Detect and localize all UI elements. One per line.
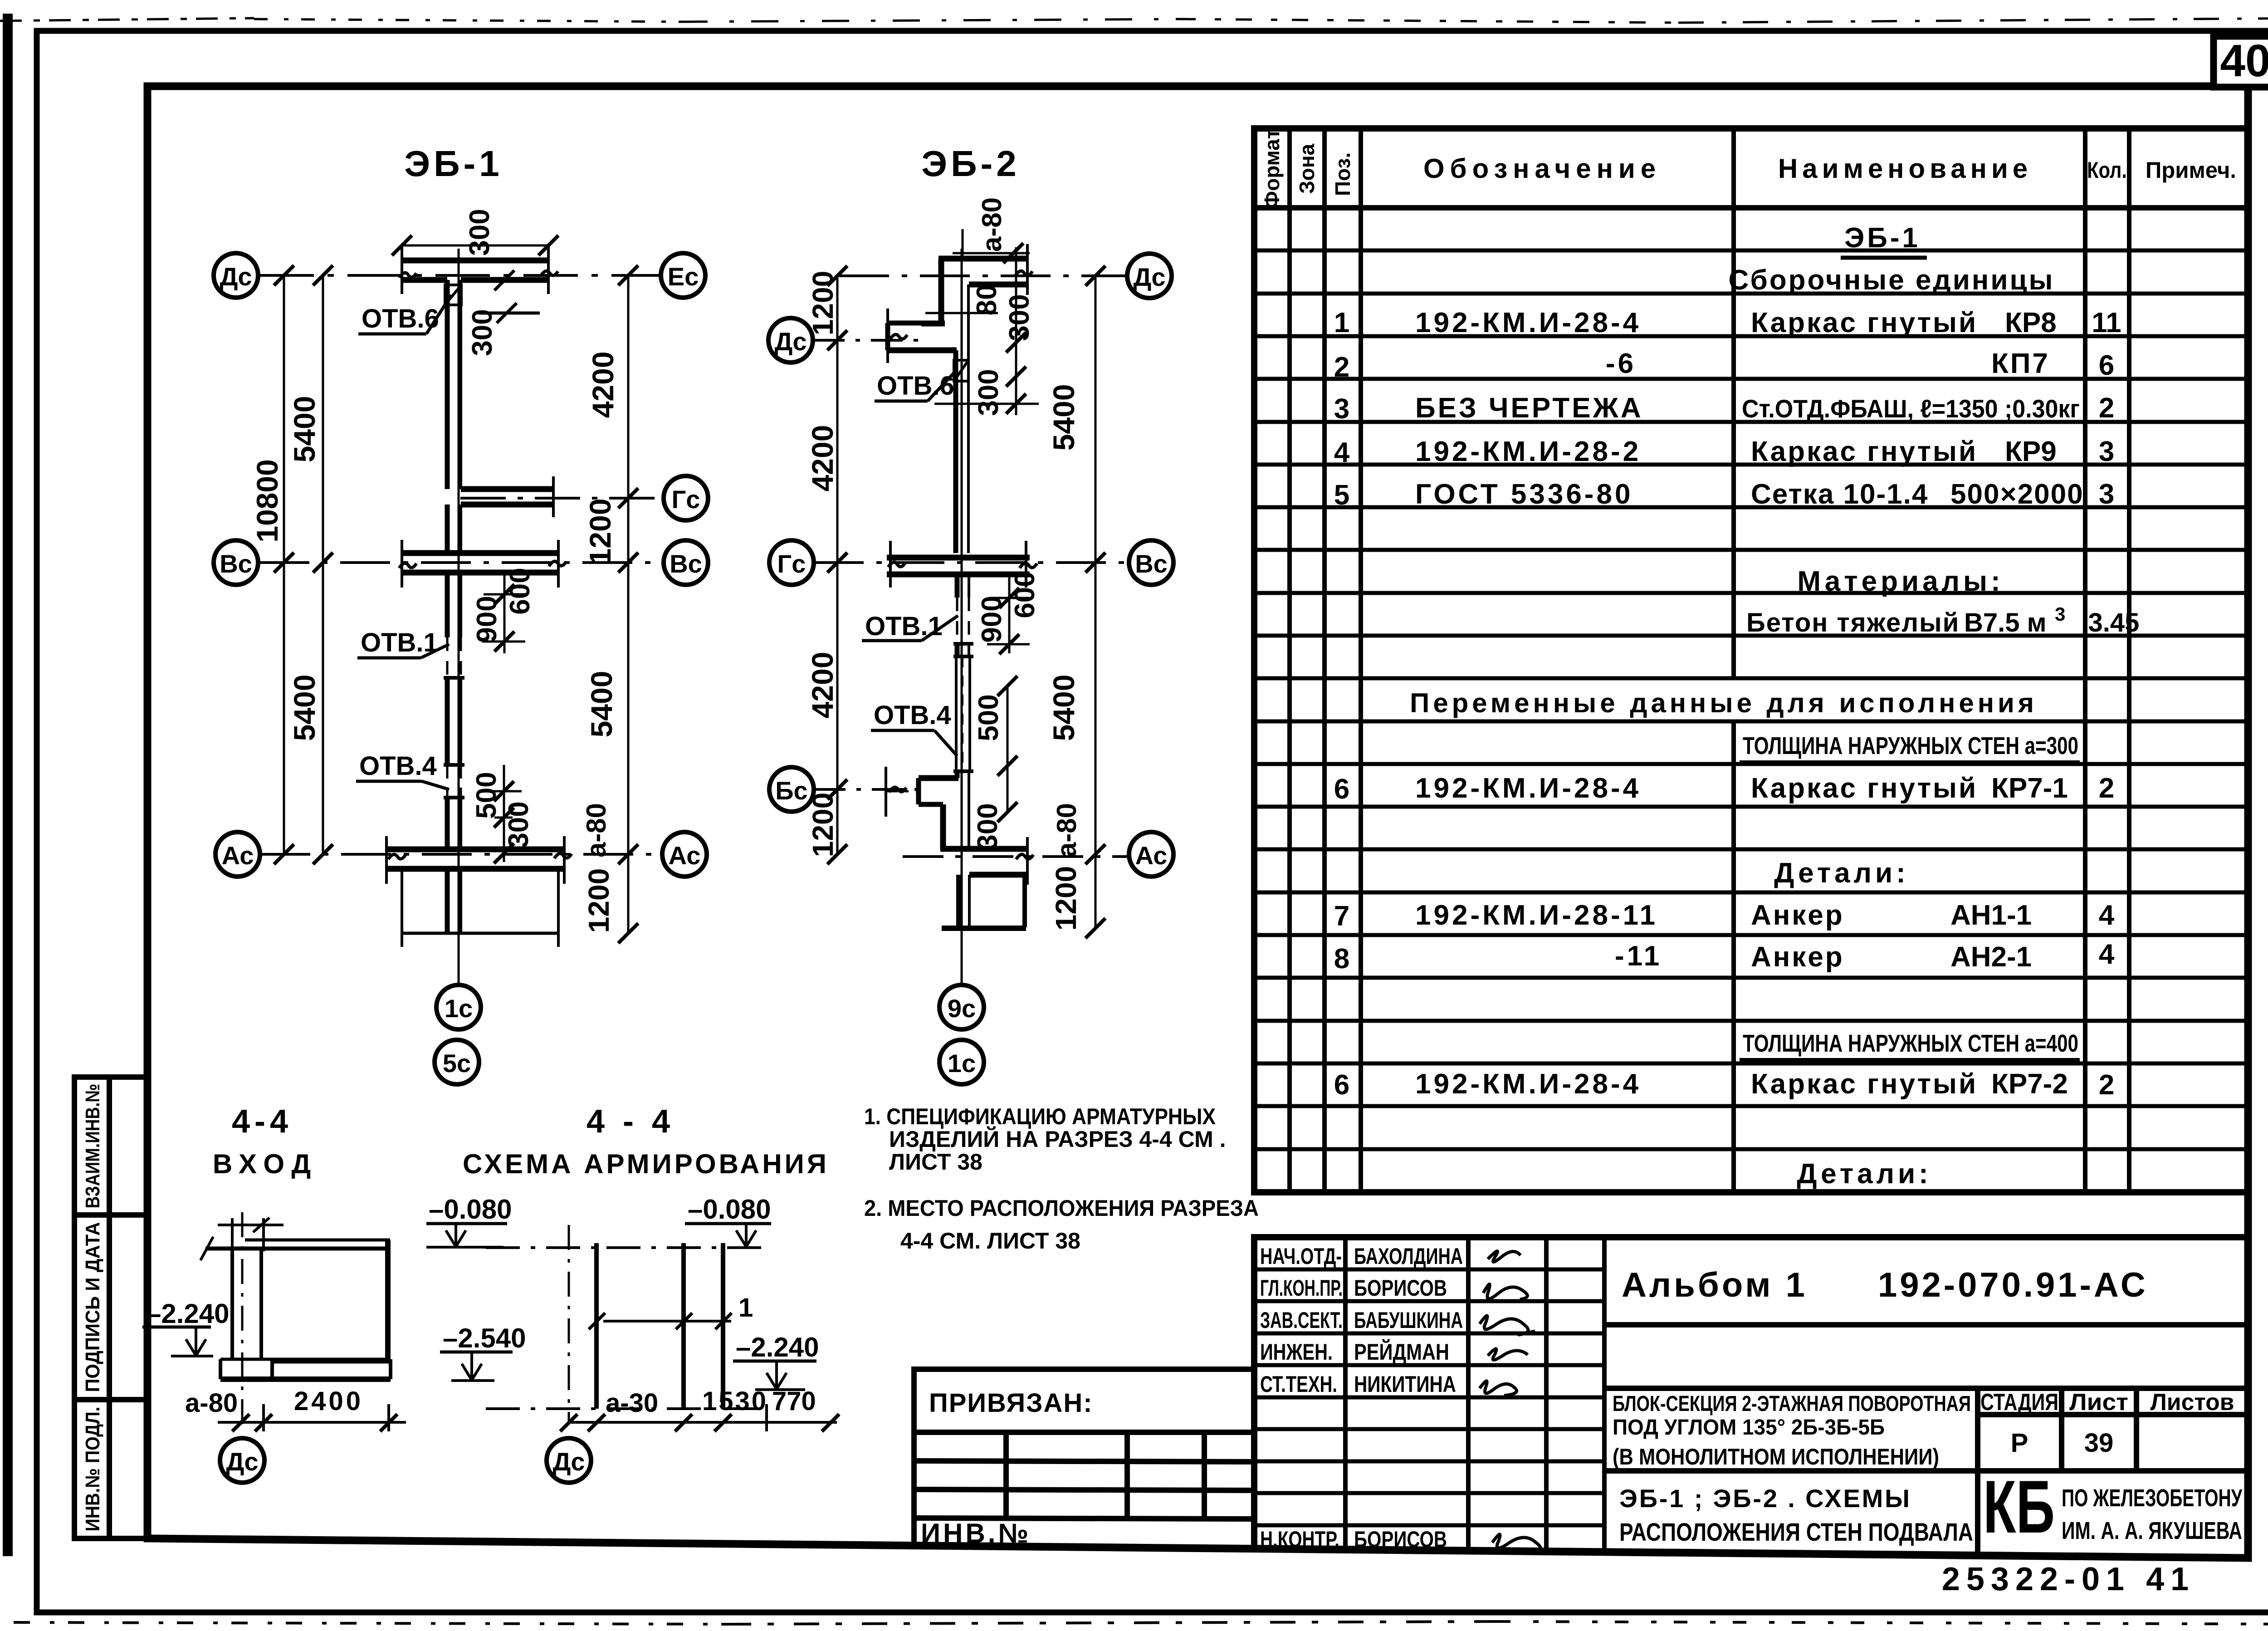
svg-text:РЕЙДМАН: РЕЙДМАН xyxy=(1354,1339,1449,1365)
svg-text:ОТВ.4: ОТВ.4 xyxy=(359,751,437,781)
svg-text:ИНВ.№: ИНВ.№ xyxy=(921,1518,1031,1548)
svg-text:5с: 5с xyxy=(443,1049,471,1078)
svg-text:ОТВ.1: ОТВ.1 xyxy=(865,612,943,641)
svg-text:5400: 5400 xyxy=(1047,675,1080,741)
svg-text:Анкер: Анкер xyxy=(1751,900,1844,931)
svg-text:1200: 1200 xyxy=(807,271,839,335)
axis line Вс xyxy=(259,561,663,564)
svg-text:а-80: а-80 xyxy=(977,197,1007,252)
svg-text:–0.080: –0.080 xyxy=(688,1194,771,1224)
svg-text:ЭБ-1: ЭБ-1 xyxy=(404,143,503,184)
signature rows xyxy=(1254,1269,1604,1525)
axis circle Гс xyxy=(664,476,708,520)
top slab xyxy=(200,1237,390,1260)
axis line Ас xyxy=(260,853,661,856)
svg-text:Каркас гнутый: Каркас гнутый xyxy=(1751,436,1978,467)
КБ logo xyxy=(1983,1465,2243,1548)
top mini dim xyxy=(218,1218,283,1251)
svg-text:КР7-1: КР7-1 xyxy=(1991,773,2068,804)
svg-text:4-4: 4-4 xyxy=(232,1103,293,1140)
svg-text:192-КМ.И-28-2: 192-КМ.И-28-2 xyxy=(1415,436,1641,467)
rebar callout 1 xyxy=(589,1293,753,1329)
wall vertical Дс-Гс xyxy=(447,280,461,489)
svg-text:80: 80 xyxy=(971,284,1002,316)
left margin stamp boxes xyxy=(74,1077,147,1538)
svg-text:Ас: Ас xyxy=(222,841,254,870)
отв.6 opening hatch ЭБ-2 xyxy=(954,360,968,381)
svg-text:192-КМ.И-28-4: 192-КМ.И-28-4 xyxy=(1415,773,1641,804)
ПРИВЯЗАН block xyxy=(914,1369,1254,1548)
sheet number box 40 xyxy=(2214,35,2268,87)
svg-text:ПРИВЯЗАН:: ПРИВЯЗАН: xyxy=(929,1388,1093,1418)
table verticals xyxy=(1290,128,2129,1192)
level mark -0.080 xyxy=(426,1194,512,1247)
svg-text:8: 8 xyxy=(1334,943,1349,975)
svg-text:Дс: Дс xyxy=(220,262,252,291)
svg-text:ОТВ.1: ОТВ.1 xyxy=(361,628,438,657)
axis circle 9с xyxy=(939,985,984,1029)
svg-text:Ес: Ес xyxy=(668,262,699,291)
wall below Ас ЭБ-2 xyxy=(942,875,1026,928)
svg-text:192-070.91-АС: 192-070.91-АС xyxy=(1878,1266,2148,1304)
svg-text:ЭБ-2: ЭБ-2 xyxy=(921,143,1020,184)
dim 600/900 below Вс xyxy=(482,574,525,653)
svg-text:10800: 10800 xyxy=(250,459,284,543)
svg-text:3: 3 xyxy=(2099,479,2114,510)
svg-text:НИКИТИНА: НИКИТИНА xyxy=(1354,1371,1456,1397)
svg-text:3: 3 xyxy=(1334,393,1349,425)
svg-text:300: 300 xyxy=(464,209,495,255)
svg-text:300: 300 xyxy=(973,369,1004,416)
svg-text:1530: 1530 xyxy=(702,1386,768,1416)
svg-text:Поз.: Поз. xyxy=(1331,152,1354,196)
svg-text:РАСПОЛОЖЕНИЯ СТЕН ПОДВАЛА: РАСПОЛОЖЕНИЯ СТЕН ПОДВАЛА xyxy=(1619,1518,1973,1546)
dim 600/900 below Вс ЭБ-2 xyxy=(987,574,1030,653)
svg-text:900: 900 xyxy=(471,596,503,642)
svg-text:ВЗАИМ.ИНВ.№: ВЗАИМ.ИНВ.№ xyxy=(82,1084,104,1209)
row lines xyxy=(1254,250,2248,1149)
wall bottom flange Ас right xyxy=(940,837,1027,885)
svg-text:600: 600 xyxy=(1009,571,1041,618)
table outer xyxy=(1254,128,2248,1192)
wall cross Ас xyxy=(386,836,564,884)
svg-text:1200: 1200 xyxy=(807,793,839,857)
svg-text:500×2000: 500×2000 xyxy=(1950,479,2084,510)
axis circle 1с xyxy=(436,985,481,1029)
svg-text:192-КМ.И-28-11: 192-КМ.И-28-11 xyxy=(1415,900,1658,931)
svg-text:а-80: а-80 xyxy=(1051,803,1082,857)
svg-text:БЛОК-СЕКЦИЯ 2-ЭТАЖНАЯ ПОВОРОТН: БЛОК-СЕКЦИЯ 2-ЭТАЖНАЯ ПОВОРОТНАЯ xyxy=(1613,1392,1971,1416)
БЛОК-СЕКЦИЯ title xyxy=(1613,1392,1971,1469)
bottom boundary dash-dot xyxy=(486,1407,767,1410)
svg-text:11: 11 xyxy=(2092,307,2121,338)
svg-text:АН2-1: АН2-1 xyxy=(1950,941,2032,973)
svg-text:Кол.: Кол. xyxy=(2087,157,2127,183)
svg-text:БАХОЛДИНА: БАХОЛДИНА xyxy=(1354,1244,1463,1269)
svg-text:ПО ЖЕЛЕЗОБЕТОНУ: ПО ЖЕЛЕЗОБЕТОНУ xyxy=(2062,1484,2243,1512)
axis circle Ас right xyxy=(1129,832,1173,877)
svg-text:Ас: Ас xyxy=(669,841,701,870)
СТАДИЯ ЛИСТ ЛИСТОВ xyxy=(1980,1389,2234,1458)
axis line Дс-Ес xyxy=(259,274,660,277)
svg-text:-6: -6 xyxy=(1606,348,1636,379)
dim 300 small (below top flange) xyxy=(474,270,540,323)
header titles xyxy=(1423,153,2236,184)
svg-text:ЭБ-1 ; ЭБ-2 . СХЕМЫ: ЭБ-1 ; ЭБ-2 . СХЕМЫ xyxy=(1619,1484,1910,1513)
svg-text:2: 2 xyxy=(2099,392,2114,424)
rebar 3 xyxy=(721,1243,725,1409)
svg-text:300: 300 xyxy=(1004,294,1035,341)
svg-text:Анкер: Анкер xyxy=(1751,941,1844,973)
svg-text:1с: 1с xyxy=(948,1049,976,1078)
wall vertical Вс-Бс with openings xyxy=(953,573,973,849)
svg-text:Вс: Вс xyxy=(1135,549,1168,578)
svg-text:300: 300 xyxy=(503,801,534,848)
svg-text:а-80: а-80 xyxy=(185,1388,238,1418)
svg-text:1с: 1с xyxy=(445,994,473,1023)
svg-text:Вс: Вс xyxy=(670,549,702,578)
svg-text:–2.540: –2.540 xyxy=(443,1323,526,1353)
svg-text:Примеч.: Примеч. xyxy=(2146,157,2236,183)
svg-text:КР9: КР9 xyxy=(2005,436,2057,467)
svg-text:КР8: КР8 xyxy=(2005,307,2057,338)
svg-text:9с: 9с xyxy=(948,994,976,1023)
dim line left 1200/4200/4200/1200 xyxy=(836,276,839,854)
svg-text:500: 500 xyxy=(973,694,1004,741)
wall cross Вс xyxy=(402,540,558,588)
grid axis vertical 1c xyxy=(458,249,460,984)
svg-text:Каркас гнутый: Каркас гнутый xyxy=(1751,307,1978,338)
axis circle Вс right xyxy=(664,540,708,585)
svg-text:БОРИСОВ: БОРИСОВ xyxy=(1354,1275,1447,1301)
svg-text:ГОСТ 5336-80: ГОСТ 5336-80 xyxy=(1415,479,1633,510)
svg-text:ПОДПИСЬ И ДАТА: ПОДПИСЬ И ДАТА xyxy=(82,1222,104,1392)
svg-text:АН1-1: АН1-1 xyxy=(1950,900,2032,931)
axis line Бс xyxy=(814,788,920,791)
axis circle Дс left xyxy=(768,318,813,362)
dim line 10800 xyxy=(283,275,285,854)
svg-text:КР7-2: КР7-2 xyxy=(1991,1068,2068,1100)
axis circle Дс section right xyxy=(547,1438,591,1483)
svg-text:В7.5 м: В7.5 м xyxy=(1964,608,2047,637)
wall stub Дс left xyxy=(888,309,957,363)
отв.1 label ЭБ-2 xyxy=(862,612,958,641)
table row texts xyxy=(1334,222,2140,1190)
svg-text:40: 40 xyxy=(2220,35,2268,86)
top boundary dash-dot xyxy=(486,1246,767,1249)
wall top flange Дс right xyxy=(921,244,1027,323)
svg-text:300: 300 xyxy=(972,803,1003,850)
left stamp rotated labels xyxy=(82,1084,104,1532)
svg-text:ЭБ-1: ЭБ-1 xyxy=(1844,222,1921,254)
svg-text:ОТВ.4: ОТВ.4 xyxy=(874,700,951,730)
wall below Ас xyxy=(402,869,558,947)
svg-text:Дс: Дс xyxy=(1133,263,1165,291)
level mark -2.540 xyxy=(440,1323,526,1381)
svg-text:ПОД УГЛОМ 135° 2Б-3Б-5Б: ПОД УГЛОМ 135° 2Б-3Б-5Б xyxy=(1613,1415,1885,1440)
svg-text:3.45: 3.45 xyxy=(2088,608,2140,637)
section walls xyxy=(232,1240,388,1359)
dim line right 5400/5400/1200 xyxy=(1095,276,1097,930)
отв.6 opening hatch xyxy=(445,285,461,305)
svg-text:БАБУШКИНА: БАБУШКИНА xyxy=(1354,1308,1463,1333)
rebar 1 xyxy=(594,1243,599,1409)
svg-text:900: 900 xyxy=(976,596,1007,642)
svg-text:4200: 4200 xyxy=(806,425,839,492)
svg-text:770: 770 xyxy=(772,1386,816,1416)
svg-text:5: 5 xyxy=(1334,480,1349,511)
svg-text:1. СПЕЦИФИКАЦИЮ АРМАТУРНЫХ: 1. СПЕЦИФИКАЦИЮ АРМАТУРНЫХ xyxy=(864,1104,1216,1129)
svg-text:КБ: КБ xyxy=(1983,1465,2055,1548)
отв.6 label xyxy=(358,295,451,334)
axis circle Дс section left xyxy=(220,1438,264,1483)
svg-text:Дс: Дс xyxy=(552,1447,585,1476)
svg-text:Детали:: Детали: xyxy=(1774,857,1909,889)
отв.6 label ЭБ-2 xyxy=(875,371,954,401)
axis circle Гс left xyxy=(769,540,814,585)
svg-text:4: 4 xyxy=(2099,939,2115,970)
svg-text:192-КМ.И-28-4: 192-КМ.И-28-4 xyxy=(1415,307,1641,338)
album cell xyxy=(1604,1322,2248,1327)
svg-text:-11: -11 xyxy=(1615,940,1662,972)
svg-text:Бс: Бс xyxy=(775,776,807,805)
axis circle Ас right xyxy=(662,832,707,877)
svg-text:Р: Р xyxy=(2011,1428,2028,1458)
svg-text:4200: 4200 xyxy=(806,652,839,719)
svg-text:Материалы:: Материалы: xyxy=(1797,566,2004,597)
svg-text:–0.080: –0.080 xyxy=(429,1194,512,1224)
ЭБ-1 ЭБ-2 схемы xyxy=(1619,1484,1973,1546)
title block outer xyxy=(1254,1237,2248,1558)
svg-text:Наименование: Наименование xyxy=(1778,153,2032,184)
svg-text:1: 1 xyxy=(738,1293,753,1322)
svg-text:Вс: Вс xyxy=(220,549,252,578)
svg-text:ОТВ.6: ОТВ.6 xyxy=(362,304,439,333)
svg-text:5400: 5400 xyxy=(288,675,321,741)
signatures (scribbles) xyxy=(1480,1251,1540,1552)
svg-text:Формат: Формат xyxy=(1260,129,1284,209)
svg-text:Каркас гнутый: Каркас гнутый xyxy=(1751,773,1978,804)
svg-text:3: 3 xyxy=(2055,603,2065,625)
svg-text:СХЕМА АРМИРОВАНИЯ: СХЕМА АРМИРОВАНИЯ xyxy=(463,1149,829,1179)
svg-text:4: 4 xyxy=(1334,437,1350,468)
svg-text:2: 2 xyxy=(1334,352,1349,383)
svg-text:Сетка 10-1.4: Сетка 10-1.4 xyxy=(1751,479,1928,510)
axis line Гс-Вс xyxy=(814,561,1129,564)
wall centerline xyxy=(241,1212,244,1425)
svg-text:2400: 2400 xyxy=(294,1386,363,1416)
bottom dim а-30 1530 770 xyxy=(560,1386,839,1431)
svg-text:1200: 1200 xyxy=(583,499,617,565)
svg-text:ТОЛЩИНА НАРУЖНЫХ СТЕН а=300: ТОЛЩИНА НАРУЖНЫХ СТЕН а=300 xyxy=(1743,732,2078,759)
svg-text:4: 4 xyxy=(2099,900,2115,931)
floor and footing xyxy=(220,1359,391,1379)
axis circle Бс left xyxy=(769,767,814,812)
svg-text:Н.КОНТР.: Н.КОНТР. xyxy=(1260,1527,1339,1552)
axis line Ас right xyxy=(903,855,1129,858)
level mark -2.240 right xyxy=(733,1332,819,1390)
axis circle Дс xyxy=(214,253,258,298)
svg-text:а-30: а-30 xyxy=(606,1388,658,1418)
svg-text:Бетон тяжелый: Бетон тяжелый xyxy=(1746,608,1960,637)
dim line right 4200/1200/5400/1200 xyxy=(627,275,630,935)
svg-text:4200: 4200 xyxy=(586,352,620,418)
signature labels xyxy=(1260,1244,1463,1552)
axis circle Ес xyxy=(661,253,705,298)
svg-text:–2.240: –2.240 xyxy=(146,1298,230,1329)
left signature grid verticals xyxy=(1345,1237,1604,1553)
svg-text:ГЛ.КОН.ПР.: ГЛ.КОН.ПР. xyxy=(1260,1275,1343,1301)
dim 500/300 above Ас xyxy=(494,765,522,862)
wall axis vertical xyxy=(568,1225,570,1425)
svg-text:500: 500 xyxy=(471,772,502,818)
axis line Дс right xyxy=(839,274,1127,277)
svg-text:Листов: Листов xyxy=(2151,1389,2234,1415)
dim 500 ЭБ-2 xyxy=(1007,686,1009,766)
axis line Гс xyxy=(460,497,663,500)
svg-text:Дс: Дс xyxy=(226,1447,258,1476)
отв.4 label ЭБ-2 xyxy=(871,700,957,756)
svg-text:6: 6 xyxy=(1334,774,1349,805)
svg-text:БОРИСОВ: БОРИСОВ xyxy=(1354,1527,1447,1552)
svg-text:ЗАВ.СЕКТ.: ЗАВ.СЕКТ. xyxy=(1260,1308,1343,1333)
svg-text:ИНВ.№ ПОДЛ.: ИНВ.№ ПОДЛ. xyxy=(82,1407,104,1532)
svg-text:1200: 1200 xyxy=(1050,866,1082,931)
svg-text:Каркас гнутый: Каркас гнутый xyxy=(1751,1068,1978,1100)
svg-text:5400: 5400 xyxy=(288,396,321,463)
header rotated labels xyxy=(1260,129,1354,209)
svg-text:а-80: а-80 xyxy=(581,803,611,857)
svg-text:300: 300 xyxy=(467,309,498,356)
axis circle Вс left xyxy=(214,540,258,585)
header bottom line xyxy=(1254,205,2248,211)
svg-text:192-КМ.И-28-4: 192-КМ.И-28-4 xyxy=(1415,1068,1641,1100)
notes text xyxy=(864,1104,1259,1254)
svg-text:Ст.ОТД.ФБАШ, ℓ=1350 ;0.30кг: Ст.ОТД.ФБАШ, ℓ=1350 ;0.30кг xyxy=(1742,394,2080,423)
axis circle Дс right xyxy=(1127,254,1172,298)
svg-text:4-4 СМ. ЛИСТ 38: 4-4 СМ. ЛИСТ 38 xyxy=(900,1228,1080,1254)
svg-text:Переменные данные для испол: Переменные данные для исполнения xyxy=(1410,688,2038,718)
level mark -2.240 xyxy=(142,1298,230,1356)
svg-text:3: 3 xyxy=(2099,436,2114,467)
svg-text:ИЗДЕЛИЙ НА РАЗРЕЗ 4-4 СМ .: ИЗДЕЛИЙ НА РАЗРЕЗ 4-4 СМ . xyxy=(889,1126,1226,1152)
svg-text:Обозначение: Обозначение xyxy=(1423,153,1661,184)
svg-text:1200: 1200 xyxy=(582,868,615,933)
axis circle Вс right xyxy=(1129,540,1173,585)
bottom dim а-80 2400 xyxy=(185,1386,406,1431)
axis circle 5с xyxy=(435,1040,479,1084)
svg-text:–2.240: –2.240 xyxy=(736,1332,819,1362)
svg-text:Гс: Гс xyxy=(777,549,806,578)
svg-text:СТ.ТЕХН.: СТ.ТЕХН. xyxy=(1260,1371,1337,1397)
wall stub Бс left xyxy=(886,767,958,849)
svg-text:ИНЖЕН.: ИНЖЕН. xyxy=(1260,1339,1333,1365)
wall stub Гс xyxy=(447,476,553,553)
svg-text:Гс: Гс xyxy=(672,485,700,514)
svg-text:КП7: КП7 xyxy=(1991,348,2050,379)
axis line Дс left xyxy=(813,339,925,342)
svg-text:6: 6 xyxy=(1334,1069,1349,1101)
svg-text:2. МЕСТО РАСПОЛОЖЕНИЯ РАЗРЕЗА: 2. МЕСТО РАСПОЛОЖЕНИЯ РАЗРЕЗА xyxy=(864,1195,1259,1221)
svg-text:ВХОД: ВХОД xyxy=(213,1149,318,1179)
wall vertical Вс-Ас with openings xyxy=(444,573,464,849)
svg-text:25322-01 41: 25322-01 41 xyxy=(1942,1561,2195,1597)
svg-text:2: 2 xyxy=(2099,773,2114,804)
axis circle Ас left xyxy=(215,832,260,877)
svg-text:Ас: Ас xyxy=(1135,841,1168,870)
svg-text:600: 600 xyxy=(504,568,536,614)
отв.4 label xyxy=(356,751,449,789)
svg-text:Детали:: Детали: xyxy=(1797,1158,1932,1190)
svg-text:БЕЗ ЧЕРТЕЖА: БЕЗ ЧЕРТЕЖА xyxy=(1415,392,1643,424)
svg-text:СТАДИЯ: СТАДИЯ xyxy=(1980,1389,2058,1415)
wall-end break marks xyxy=(388,271,1037,859)
dim line 5400/5400 xyxy=(322,275,324,854)
svg-text:ЛИСТ 38: ЛИСТ 38 xyxy=(889,1149,982,1175)
dim 300 top xyxy=(402,245,548,247)
svg-text:НАЧ.ОТД-: НАЧ.ОТД- xyxy=(1260,1244,1342,1269)
rebar 2 xyxy=(681,1243,686,1409)
svg-text:1: 1 xyxy=(1334,307,1349,338)
svg-text:5400: 5400 xyxy=(1047,384,1080,451)
svg-text:7: 7 xyxy=(1334,901,1349,932)
svg-text:Зона: Зона xyxy=(1295,143,1319,194)
svg-text:39: 39 xyxy=(2084,1428,2114,1458)
wall top flange Дс xyxy=(402,244,548,294)
svg-text:5400: 5400 xyxy=(585,671,618,738)
svg-text:6: 6 xyxy=(2099,350,2114,381)
svg-text:ИМ. А. А. ЯКУШЕВА: ИМ. А. А. ЯКУШЕВА xyxy=(2062,1517,2242,1544)
svg-text:ТОЛЩИНА НАРУЖНЫХ СТЕН а=400: ТОЛЩИНА НАРУЖНЫХ СТЕН а=400 xyxy=(1743,1030,2078,1057)
grid axis vertical 9с xyxy=(961,249,963,984)
scan noise left edge bar xyxy=(3,14,13,1556)
svg-text:2: 2 xyxy=(2099,1069,2114,1101)
scan noise top edge xyxy=(0,18,2268,23)
mini dims top а-80/80/300/300 xyxy=(925,229,1039,415)
svg-text:Дс: Дс xyxy=(774,327,807,356)
scan noise bottom edge xyxy=(14,1621,2268,1624)
wall cross Гс-Вс xyxy=(887,541,1030,588)
svg-text:Лист: Лист xyxy=(2069,1389,2128,1415)
dim 300 above Бс ЭБ-2 xyxy=(1007,766,1009,812)
level mark -0.080 right section xyxy=(685,1194,771,1247)
svg-text:Альбом 1: Альбом 1 xyxy=(1622,1266,1808,1304)
wall vertical Дс-Гс xyxy=(956,284,968,553)
axis circle 1с xyxy=(939,1040,984,1084)
main title area lines xyxy=(1604,1388,2248,1553)
отв.1 label xyxy=(357,628,449,658)
svg-text:4 - 4: 4 - 4 xyxy=(587,1103,675,1140)
svg-text:(В МОНОЛИТНОМ ИСПОЛНЕНИИ): (В МОНОЛИТНОМ ИСПОЛНЕНИИ) xyxy=(1613,1444,1939,1469)
svg-text:Сборочные единицы: Сборочные единицы xyxy=(1729,264,2055,296)
